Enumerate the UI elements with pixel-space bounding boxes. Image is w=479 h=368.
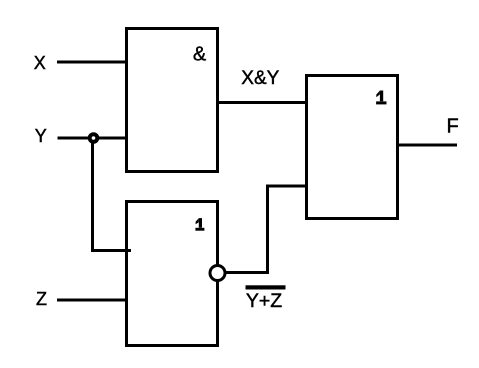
U2 output inversion bubble (210, 266, 225, 281)
wire U2 output horizontal (225, 271, 269, 274)
svg-text:Z: Z (36, 289, 47, 309)
wire U2 output vertical (266, 186, 269, 274)
or-gate U3 box (307, 76, 398, 219)
or-gate U3 label 1 (376, 91, 386, 105)
wire U3 output F (398, 144, 458, 147)
and-gate U1 box (127, 29, 218, 172)
wire into U3 lower input (266, 185, 308, 188)
svg-text:X&Y: X&Y (241, 68, 279, 89)
wire X input (57, 61, 128, 64)
svg-text:F: F (447, 116, 459, 138)
svg-text:Y: Y (35, 126, 47, 146)
wire Y branch horizontal (91, 249, 131, 252)
wire Z input (57, 299, 128, 302)
wire Y branch vertical (91, 138, 94, 251)
wire U1 output X&Y (218, 101, 308, 104)
wire Y input (58, 137, 129, 140)
svg-text:&: & (193, 43, 207, 65)
or-gate U2 box (127, 202, 218, 346)
svg-text:X: X (34, 53, 46, 73)
net label Y+Z overline bar (246, 285, 286, 289)
or-gate U2 label 1 (195, 218, 204, 231)
junction node on Y wire (90, 134, 98, 142)
svg-text:Y+Z: Y+Z (246, 290, 282, 312)
